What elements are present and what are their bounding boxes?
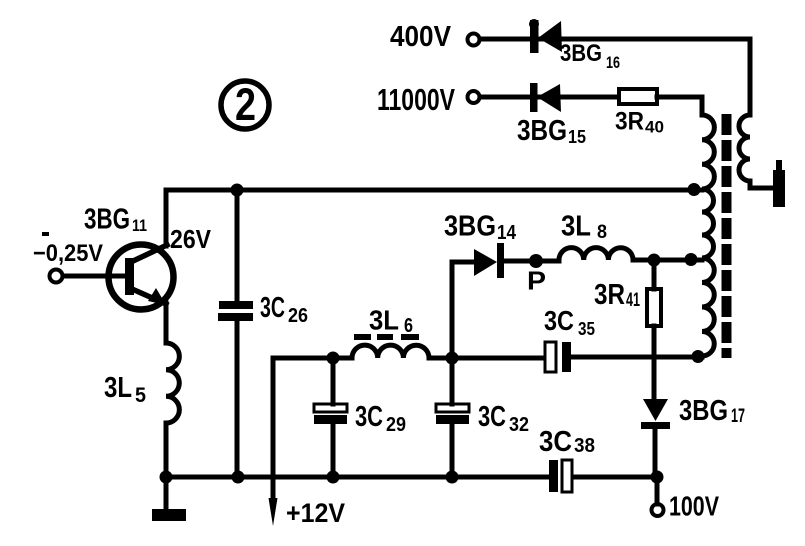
terminal base input	[50, 270, 63, 283]
node dot transformer tap mid	[685, 253, 698, 266]
transistor Q 3BG11	[109, 245, 174, 310]
wire bottom bus left segment	[166, 475, 549, 480]
capacitor 3C29	[314, 404, 347, 424]
transformer core	[722, 114, 732, 358]
wire 3L6 line left	[273, 358, 352, 359]
svg-text:38: 38	[574, 435, 595, 457]
svg-text:15: 15	[568, 127, 586, 147]
svg-text:−0,25V: −0,25V	[33, 240, 103, 267]
wire 3L8 to transformer tap	[633, 258, 702, 263]
svg-text:17: 17	[731, 406, 745, 427]
circled number 2	[221, 81, 269, 129]
transformer primary winding	[702, 115, 714, 356]
wire 3C29 bottom	[331, 358, 336, 477]
diode 3BG14	[474, 243, 504, 278]
core dashes above 3L6	[354, 334, 419, 340]
svg-text:3C: 3C	[544, 305, 574, 336]
wire base	[63, 274, 125, 279]
node dot 3R41 top	[648, 254, 661, 267]
arrowhead +12V	[269, 498, 278, 526]
svg-text:3L: 3L	[561, 211, 591, 243]
svg-text:3C: 3C	[539, 426, 572, 458]
svg-text:40: 40	[645, 118, 664, 137]
capacitor 3C26	[218, 301, 253, 321]
svg-text:3BG: 3BG	[560, 40, 602, 67]
svg-text:3L: 3L	[104, 372, 132, 404]
node dot bottom-left	[160, 471, 173, 484]
node dot top bus at transformer tap	[688, 183, 701, 196]
node dot bottom bus at 3C29	[327, 471, 340, 484]
wire 3L6 to 3C35	[429, 356, 545, 361]
svg-text:100V: 100V	[669, 491, 720, 522]
wire to 100V terminal	[655, 477, 660, 504]
svg-text:6: 6	[404, 315, 413, 337]
svg-text:3BG: 3BG	[517, 115, 567, 147]
svg-text:P: P	[527, 266, 546, 296]
wire to diode 3BG14	[452, 260, 474, 265]
svg-text:16: 16	[606, 54, 620, 72]
wire 3C26 column top	[235, 190, 240, 301]
svg-text:5: 5	[135, 384, 146, 407]
inductor 3L5	[166, 343, 179, 423]
ground right bar	[773, 170, 785, 207]
terminal 100V	[652, 504, 664, 516]
wire collector up	[164, 190, 169, 246]
wire 3R41 bottom to diode	[652, 326, 657, 399]
wire to ground	[164, 477, 169, 509]
svg-text:3BG: 3BG	[84, 204, 130, 236]
svg-text:29: 29	[386, 414, 406, 436]
svg-text:35: 35	[578, 319, 595, 339]
svg-text:3R: 3R	[594, 279, 625, 311]
svg-text:3BG: 3BG	[444, 211, 496, 243]
svg-text:8: 8	[597, 222, 607, 243]
wire diode to 3L8	[504, 259, 559, 264]
terminal 11000V	[468, 91, 480, 103]
svg-text:+12V: +12V	[286, 498, 345, 528]
transformer secondary winding	[739, 115, 750, 181]
capacitor 3C32	[436, 404, 469, 424]
diode 3BG17	[641, 399, 670, 429]
wire 400V to top-right corner	[480, 39, 750, 115]
wire 3L5 to bottom bus	[164, 423, 169, 477]
svg-text:3BG: 3BG	[679, 395, 728, 427]
capacitor 3C38	[549, 460, 572, 492]
terminal 400V	[468, 34, 480, 46]
svg-text:11000V: 11000V	[377, 83, 455, 117]
node dot top bus at 3C26	[231, 184, 244, 197]
wire 3C32 column	[450, 262, 455, 477]
wire diode to bottom bus	[653, 429, 658, 477]
resistor 3R40	[619, 89, 657, 104]
diode 3BG15	[530, 83, 561, 112]
svg-text:26V: 26V	[170, 224, 212, 254]
scan speck	[42, 232, 49, 236]
wire 11000V to resistor	[480, 95, 619, 100]
svg-text:3C: 3C	[478, 401, 506, 433]
wire secondary to ground	[750, 181, 773, 188]
svg-text:14: 14	[497, 222, 517, 244]
svg-text:11: 11	[132, 216, 147, 235]
svg-text:26: 26	[288, 305, 308, 327]
node dot transformer tap bottom	[692, 350, 705, 363]
node dot bottom bus at 3C26	[232, 471, 245, 484]
node dot bottom bus at 3C32	[446, 471, 459, 484]
svg-text:3R: 3R	[615, 108, 644, 136]
wire emitter down to 3L5	[164, 303, 169, 343]
inductor 3L6	[352, 345, 429, 358]
svg-text:3C: 3C	[355, 401, 383, 433]
svg-text:41: 41	[626, 290, 640, 311]
ground right stub	[776, 160, 782, 172]
wire resistor to transformer primary top	[657, 97, 702, 115]
svg-text:400V: 400V	[390, 21, 451, 53]
inductor 3L8	[559, 248, 633, 261]
svg-text:3C: 3C	[260, 292, 285, 324]
node dot 3C29 top	[327, 352, 340, 365]
wire 3C35 to transformer	[571, 355, 702, 360]
capacitor 3C35	[545, 342, 571, 372]
wire 3C26 column bottom	[235, 321, 240, 477]
wire +12V feed	[271, 359, 276, 505]
wire bottom bus right segment	[572, 475, 657, 480]
wire 3R41 top	[652, 260, 657, 289]
wire top bus 26V	[166, 188, 702, 193]
svg-text:32: 32	[509, 414, 529, 436]
node P dot	[529, 254, 543, 268]
node dot 100V	[651, 471, 664, 484]
svg-text:3L: 3L	[369, 305, 399, 336]
svg-text:2: 2	[235, 79, 256, 130]
resistor 3R41	[647, 289, 661, 326]
diode 3BG16	[529, 19, 562, 53]
ground bottom-left	[152, 509, 186, 521]
node dot 3C32 top	[446, 352, 459, 365]
